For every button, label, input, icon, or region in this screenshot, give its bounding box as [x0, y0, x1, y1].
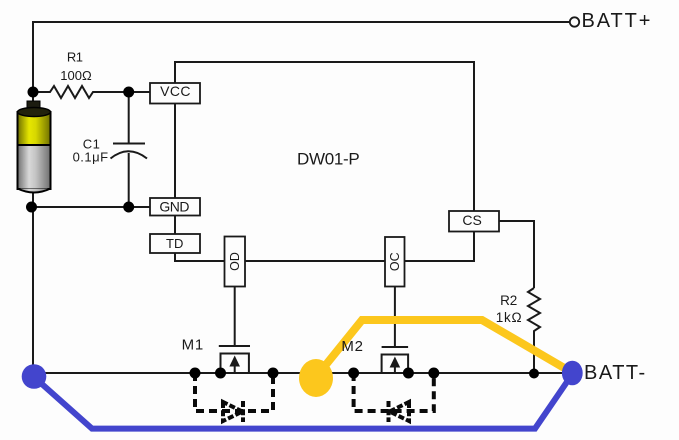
svg-text:0.1μF: 0.1μF — [73, 149, 109, 164]
svg-text:GND: GND — [159, 199, 189, 215]
svg-text:R1: R1 — [67, 50, 83, 65]
svg-text:1kΩ: 1kΩ — [496, 310, 523, 325]
svg-text:OD: OD — [228, 252, 242, 271]
svg-text:DW01-P: DW01-P — [297, 150, 359, 169]
svg-text:100Ω: 100Ω — [60, 68, 92, 83]
svg-text:CS: CS — [462, 212, 481, 228]
svg-text:OC: OC — [388, 252, 402, 271]
svg-text:BATT+: BATT+ — [582, 10, 653, 32]
svg-text:M2: M2 — [341, 338, 363, 355]
svg-text:VCC: VCC — [160, 83, 191, 99]
svg-text:R2: R2 — [500, 293, 517, 308]
svg-text:BATT-: BATT- — [584, 362, 647, 384]
svg-text:TD: TD — [166, 236, 183, 251]
svg-text:M1: M1 — [182, 337, 204, 354]
